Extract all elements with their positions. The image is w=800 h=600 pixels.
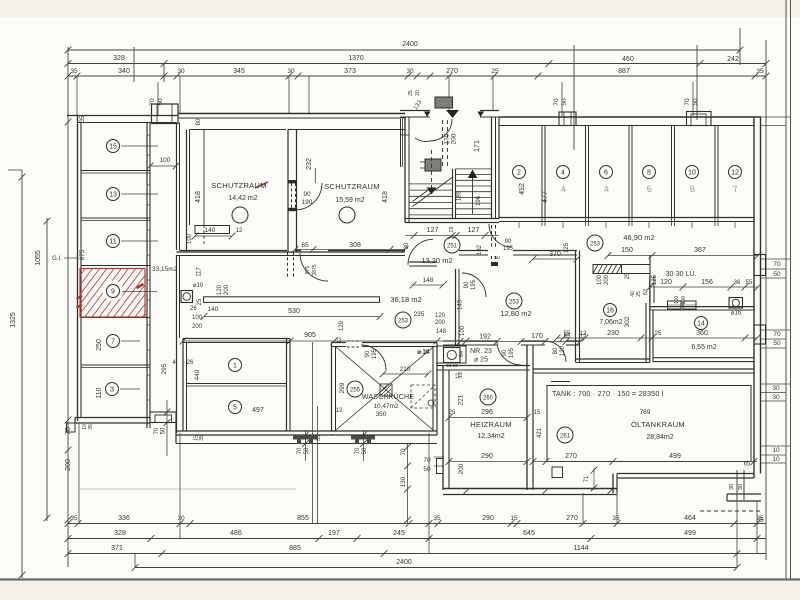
svg-text:195: 195 (372, 348, 378, 359)
rooms bottom wall (499, 217, 754, 219)
svg-text:64: 64 (459, 351, 465, 357)
svg-text:28,84m2: 28,84m2 (646, 434, 673, 441)
svg-text:10: 10 (772, 456, 780, 463)
room 9 red hatched area (20, 269, 186, 318)
heizraum bottom wall (443, 488, 617, 490)
dashed table (411, 385, 435, 408)
tank dim line (533, 461, 757, 463)
waschk east wall (432, 347, 434, 432)
room1 east wall (286, 339, 288, 432)
room253 circle (506, 293, 522, 309)
svg-text:8: 8 (647, 170, 651, 177)
schutzraum1 west wall (186, 130, 188, 253)
room 9 circle (107, 285, 120, 298)
svg-text:132: 132 (477, 244, 483, 255)
svg-text:ÖLTANKRAUM: ÖLTANKRAUM (631, 420, 685, 429)
svg-text:120: 120 (560, 345, 566, 356)
svg-text:499: 499 (669, 453, 681, 460)
heizraum top wall (437, 365, 530, 367)
svg-text:477: 477 (542, 191, 549, 203)
svg-text:100: 100 (674, 296, 680, 305)
corridor top wall band (180, 250, 288, 252)
svg-text:156: 156 (701, 279, 713, 286)
corridor door arc 170 (408, 239, 433, 264)
svg-text:140: 140 (208, 306, 219, 313)
right wing chimney 1 (559, 112, 576, 126)
svg-text:486: 486 (230, 530, 242, 537)
svg-text:25: 25 (625, 272, 631, 279)
svg-text:100: 100 (160, 157, 171, 164)
svg-text:70: 70 (297, 447, 303, 454)
svg-text:70: 70 (553, 98, 560, 106)
waschk top wall (332, 342, 347, 344)
schutzraum2 vent circle (339, 207, 355, 223)
dim row 120/156/36/55 (650, 286, 758, 288)
heiz door arc 1 (497, 341, 521, 365)
svg-text:440: 440 (194, 369, 201, 380)
svg-text:1055: 1055 (35, 250, 42, 266)
svg-text:189: 189 (457, 190, 463, 201)
svg-text:G.I.: G.I. (52, 256, 62, 262)
bottom row2 line (68, 538, 766, 540)
room253 west wall (455, 269, 457, 345)
svg-text:975: 975 (79, 249, 86, 260)
svg-text:HEIZRAUM: HEIZRAUM (470, 420, 512, 429)
svg-text:⌀10: ⌀10 (193, 283, 204, 289)
svg-text:90: 90 (505, 239, 512, 245)
svg-text:336: 336 (118, 515, 130, 522)
bottom row1 line (68, 523, 766, 525)
svg-text:35: 35 (756, 515, 764, 522)
svg-text:100: 100 (192, 315, 203, 321)
pier mid 1 (293, 435, 317, 444)
svg-text:200: 200 (681, 296, 687, 305)
svg-text:1: 1 (233, 363, 237, 370)
vert dim line x407 (407, 444, 409, 523)
svg-text:20: 20 (415, 90, 421, 96)
svg-text:200: 200 (224, 284, 230, 295)
room14 circle (695, 317, 708, 330)
svg-text:253: 253 (590, 242, 601, 248)
left chimney (152, 104, 179, 124)
bottom verticals (78, 423, 80, 524)
svg-text:127: 127 (468, 227, 480, 234)
svg-text:7,06m2: 7,06m2 (599, 319, 622, 326)
svg-text:60: 60 (196, 118, 202, 125)
svg-text:887: 887 (618, 68, 630, 75)
svg-text:30: 30 (738, 484, 744, 490)
svg-text:11: 11 (109, 239, 116, 246)
footing line (176, 443, 437, 445)
heizraum door (437, 459, 444, 474)
corridor west wall (176, 123, 178, 251)
waschk door dashes (347, 340, 360, 342)
waschk west wall (331, 343, 333, 432)
svg-text:4: 4 (561, 170, 565, 177)
partition rooms 4/6 (585, 126, 587, 218)
corridor 13,20 circle (444, 237, 460, 253)
dim 905 line (183, 340, 466, 342)
red accent stroke b (77, 296, 83, 300)
room1 top wall (183, 338, 290, 340)
schutzraum dim line (295, 249, 405, 251)
svg-text:14,42 m2: 14,42 m2 (228, 195, 257, 202)
svg-text:190: 190 (302, 199, 313, 206)
svg-text:308: 308 (349, 242, 361, 249)
svg-text:197: 197 (328, 530, 340, 537)
svg-text:NR. 23: NR. 23 (470, 348, 492, 355)
svg-text:171: 171 (474, 140, 481, 152)
svg-text:464: 464 (684, 515, 696, 522)
heizraum circle (480, 389, 496, 405)
svg-text:36,18 m2: 36,18 m2 (390, 295, 421, 304)
svg-text:192: 192 (479, 334, 491, 341)
svg-text:12,80 m2: 12,80 m2 (500, 309, 531, 318)
svg-text:6: 6 (604, 170, 608, 177)
svg-text:15: 15 (510, 515, 518, 522)
svg-text:10,47m2: 10,47m2 (373, 403, 399, 410)
tank corner line (551, 381, 570, 383)
stair grey box 2 (425, 159, 441, 171)
stair bottom wall (405, 218, 499, 220)
svg-text:232: 232 (306, 158, 313, 170)
red accent stroke a (137, 284, 144, 288)
stair cut line (413, 178, 453, 207)
heizraum west wall (442, 366, 444, 491)
svg-text:170: 170 (444, 133, 451, 144)
svg-text:70: 70 (423, 457, 431, 464)
svg-text:15: 15 (534, 410, 541, 416)
svg-text:242: 242 (727, 56, 739, 63)
svg-text:148: 148 (423, 277, 434, 284)
svg-text:1325: 1325 (10, 312, 17, 328)
svg-text:26: 26 (190, 306, 197, 312)
svg-text:360: 360 (696, 330, 708, 337)
svg-text:373: 373 (344, 68, 356, 75)
mid wall door jambs (288, 180, 298, 183)
partition rooms 6/8 (628, 126, 630, 218)
svg-text:46,90 m2: 46,90 m2 (623, 233, 654, 242)
stair dim line (405, 235, 499, 237)
room1 circle (229, 359, 242, 372)
room253 east wall (575, 251, 577, 346)
top wall extension lines right (761, 116, 790, 118)
svg-text:120: 120 (217, 284, 223, 295)
svg-text:129: 129 (339, 320, 345, 331)
svg-text:200: 200 (451, 133, 458, 144)
corridor 253b circle (395, 312, 411, 328)
stair east wall dashed continuation (491, 225, 493, 262)
corr dim line 150/367 (608, 255, 758, 257)
svg-text:70: 70 (355, 447, 361, 454)
svg-text:90: 90 (365, 350, 371, 357)
svg-text:100: 100 (597, 274, 603, 285)
room 2 circle (513, 166, 526, 179)
svg-text:50: 50 (773, 271, 781, 278)
stair entry vestibule lines (400, 119, 402, 167)
stair up arrow (468, 170, 477, 179)
svg-text:65: 65 (301, 242, 309, 249)
bottom right corner wall (727, 493, 761, 495)
svg-text:295: 295 (161, 363, 168, 374)
svg-text:302: 302 (624, 316, 631, 327)
room 3 circle (106, 383, 119, 396)
svg-text:70: 70 (773, 261, 781, 268)
svg-text:9: 9 (111, 289, 115, 296)
svg-text:15,59 m2: 15,59 m2 (335, 197, 364, 204)
svg-text:230: 230 (607, 330, 619, 337)
dim row 2400 line (68, 49, 740, 51)
waschk door arc (361, 345, 386, 370)
entry arrow black (446, 110, 459, 118)
svg-text:15: 15 (109, 144, 117, 151)
room16 circle (604, 304, 617, 317)
svg-text:769: 769 (640, 409, 651, 416)
svg-text:12,34m2: 12,34m2 (477, 433, 504, 440)
divider room 7/3 (81, 364, 150, 366)
tank small square (552, 467, 563, 478)
room1 west wall (182, 339, 184, 432)
mid verticals (312, 342, 314, 523)
svg-text:25: 25 (197, 298, 203, 305)
dim row2 line (68, 63, 766, 65)
svg-text:1144: 1144 (573, 545, 588, 552)
corr wall lines (622, 264, 651, 266)
svg-text:270: 270 (446, 68, 458, 75)
entry side arrow left (424, 112, 431, 118)
top scan margin band (0, 0, 800, 17)
room14 top wall (650, 306, 754, 308)
paper bottom edge (0, 578, 800, 580)
svg-text:371: 371 (111, 545, 123, 552)
waschk circle 255 (347, 381, 363, 397)
divider room 9/7 (81, 317, 150, 319)
drain box (181, 291, 193, 303)
svg-text:120: 120 (660, 279, 672, 286)
svg-text:16: 16 (449, 226, 455, 232)
svg-text:150: 150 (621, 247, 633, 254)
room 8 circle (643, 166, 656, 179)
schutzraum1 vent circle (232, 207, 248, 223)
svg-text:195: 195 (503, 246, 514, 252)
svg-text:SCHUTZRAUM: SCHUTZRAUM (211, 181, 267, 190)
divider room 13/11 (81, 217, 150, 219)
room253 door arc west (462, 273, 486, 297)
svg-text:350: 350 (376, 411, 387, 418)
svg-text:35: 35 (199, 435, 205, 441)
entry side arrow right (478, 112, 485, 118)
stair top wall (400, 110, 430, 112)
svg-text:6,55 m2: 6,55 m2 (691, 344, 716, 351)
svg-text:12: 12 (580, 331, 587, 337)
svg-text:90: 90 (303, 191, 311, 198)
bottom row3 line (68, 553, 766, 555)
svg-text:645: 645 (523, 530, 535, 537)
schutzraum1 west door dashes (186, 225, 188, 244)
left column west wall (77, 116, 79, 422)
svg-text:50: 50 (161, 427, 167, 434)
svg-text:253: 253 (509, 300, 520, 306)
svg-text:50: 50 (423, 466, 431, 473)
room 11 circle (107, 235, 120, 248)
svg-text:26: 26 (187, 360, 194, 366)
svg-text:36: 36 (734, 280, 741, 286)
svg-text:196: 196 (476, 195, 482, 206)
right wing chimney 2 (687, 112, 712, 126)
svg-text:50: 50 (773, 340, 781, 347)
room1/5 divider (187, 383, 287, 385)
schutzraum bottom wall (177, 251, 406, 253)
svg-text:⌀16: ⌀16 (731, 311, 742, 317)
dashed hidden line (700, 510, 763, 512)
room16 bottom wall (576, 358, 651, 360)
corridor west wall lower (176, 255, 178, 433)
svg-text:30: 30 (404, 242, 410, 249)
svg-text:35: 35 (433, 515, 441, 522)
svg-text:421: 421 (537, 427, 543, 438)
red accent stroke c (255, 182, 268, 188)
svg-text:50: 50 (304, 447, 310, 454)
room 15 circle (107, 140, 120, 153)
svg-text:10: 10 (772, 447, 780, 454)
bench rect 140 (195, 226, 230, 234)
dim line under 253 (460, 341, 580, 343)
room 12 circle (729, 166, 742, 179)
svg-text:460: 460 (622, 56, 634, 63)
room16 west wall (575, 345, 577, 362)
svg-text:340: 340 (118, 68, 130, 75)
svg-text:127: 127 (427, 227, 439, 234)
svg-text:270: 270 (565, 453, 577, 460)
svg-text:235: 235 (414, 311, 425, 318)
stair west wall (404, 117, 406, 223)
corridor 46,90 circle 253 (587, 235, 603, 251)
tank step wall (612, 474, 614, 494)
page border right double line (785, 0, 787, 579)
svg-text:345: 345 (233, 68, 245, 75)
svg-text:530: 530 (288, 308, 300, 315)
tank circle 261 (557, 427, 573, 443)
room bottom wall left (176, 430, 334, 432)
left column top wall (67, 115, 178, 117)
svg-text:80: 80 (553, 347, 559, 354)
svg-text:30: 30 (406, 68, 414, 75)
svg-text:30·30 LÜ.: 30·30 LÜ. (666, 270, 697, 278)
tank inner rect (547, 386, 751, 462)
svg-text:7: 7 (111, 339, 115, 346)
svg-text:70: 70 (154, 427, 160, 434)
svg-text:14: 14 (697, 321, 705, 328)
svg-text:25: 25 (636, 291, 642, 297)
svg-text:55: 55 (564, 331, 571, 337)
niche rects (668, 301, 682, 309)
left column east wall (146, 123, 148, 429)
svg-text:30: 30 (177, 68, 185, 75)
svg-text:10: 10 (688, 170, 696, 177)
svg-text:418: 418 (195, 191, 202, 203)
svg-text:WASCHKÜCHE: WASCHKÜCHE (362, 393, 414, 401)
svg-text:30: 30 (177, 515, 185, 522)
svg-text:13: 13 (109, 192, 117, 199)
left bottom box (67, 423, 76, 432)
bottom row4 line (135, 567, 737, 569)
svg-text:195: 195 (471, 279, 477, 290)
svg-text:2400: 2400 (396, 559, 412, 566)
svg-text:35: 35 (70, 68, 78, 75)
room253 top wall (459, 250, 577, 252)
svg-text:261: 261 (560, 434, 571, 440)
svg-text:25: 25 (408, 90, 414, 96)
waschk bottom wall (332, 430, 438, 432)
left dim line 975 (67, 115, 69, 567)
stair chimney grey box (435, 97, 453, 108)
svg-text:245: 245 (393, 530, 405, 537)
stair treads lower flight (409, 183, 453, 185)
pier left 70/50 (150, 412, 176, 423)
svg-text:253: 253 (398, 319, 409, 325)
svg-text:90: 90 (464, 281, 470, 288)
svg-text:33,15m2: 33,15m2 (152, 266, 178, 273)
divider room 11/9 (81, 265, 150, 267)
heiz door arc 2 (545, 341, 566, 362)
room 9 circle halo (103, 281, 124, 302)
schutzraum1 inner west line (203, 130, 205, 226)
svg-text:210: 210 (400, 366, 411, 373)
waschk diagonals (336, 347, 433, 430)
left column bottom wall (75, 417, 150, 419)
tank top wall (533, 368, 754, 370)
dim row3 line (68, 75, 766, 77)
svg-text:1370: 1370 (348, 55, 364, 62)
svg-text:30: 30 (729, 484, 735, 490)
heizraum east wall (526, 345, 528, 490)
svg-text:418: 418 (382, 191, 389, 203)
svg-text:TANK : 700 · 270 · 150 = 2835: TANK : 700 · 270 · 150 = 28350 l (552, 389, 664, 398)
left dim line 1055 (46, 218, 48, 521)
dim row room14 (557, 337, 757, 339)
svg-text:35: 35 (316, 435, 322, 441)
main top wall outer (178, 113, 405, 115)
svg-text:90: 90 (502, 349, 508, 356)
right wing east wall (753, 117, 755, 478)
svg-text:71: 71 (584, 475, 590, 482)
svg-text:2: 2 (517, 170, 521, 177)
svg-text:30: 30 (772, 385, 780, 392)
top dim verticals (67, 47, 69, 115)
svg-text:855: 855 (297, 515, 309, 522)
right wing top wall (499, 116, 761, 118)
room 6 circle (600, 166, 613, 179)
room 4 circle (557, 166, 570, 179)
svg-text:55: 55 (746, 280, 753, 286)
mid wall door dashes (291, 183, 293, 210)
hatched wall piece (593, 265, 622, 274)
partition rooms 10/12 (714, 126, 716, 218)
corridor tick marks (147, 134, 150, 136)
svg-text:875: 875 (305, 266, 311, 275)
corr door arc mid (300, 253, 328, 281)
svg-text:221: 221 (458, 394, 465, 405)
svg-text:200: 200 (435, 320, 446, 326)
svg-text:13,20 m2: 13,20 m2 (421, 256, 452, 265)
svg-text:170: 170 (531, 333, 543, 340)
partition rooms 2/4 (541, 126, 543, 218)
stair door arc (430, 119, 452, 141)
svg-text:200: 200 (458, 463, 465, 474)
svg-text:5: 5 (233, 405, 237, 412)
room 7 circle (107, 335, 120, 348)
svg-text:25: 25 (655, 331, 662, 337)
